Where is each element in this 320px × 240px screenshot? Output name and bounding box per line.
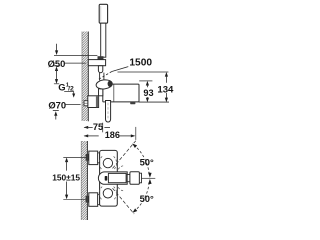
svg-text:134: 134 [157,84,174,95]
svg-text:75: 75 [93,122,103,132]
svg-text:50°: 50° [140,156,154,167]
svg-text:1500: 1500 [129,58,152,69]
svg-text:93: 93 [143,88,153,98]
svg-text:Ø70: Ø70 [48,99,66,110]
svg-text:186: 186 [105,130,120,140]
svg-text:G: G [58,82,65,93]
svg-text:50°: 50° [140,193,154,204]
svg-text:150±15: 150±15 [52,172,80,182]
